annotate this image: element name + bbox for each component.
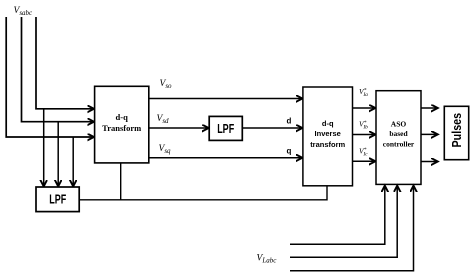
wire pulse a — [421, 107, 438, 109]
wire d output of LPF to inverse transform — [242, 127, 302, 129]
wire VIa* — [353, 107, 376, 109]
wire pulse b — [421, 133, 438, 135]
block ASO based controller — [376, 91, 421, 185]
svg-text:LPF: LPF — [217, 121, 234, 136]
svg-text:ASO: ASO — [391, 120, 407, 129]
svg-text:Pulses: Pulses — [449, 113, 464, 148]
wire LPF output to inverse transform bottom — [79, 186, 327, 200]
wire pulse c — [421, 161, 438, 163]
svg-text:controller: controller — [383, 140, 415, 149]
block d-q Transform — [95, 86, 149, 163]
svg-text:d-q: d-q — [116, 112, 129, 122]
block LPF (feedback filter) — [36, 187, 79, 212]
wire Vsd output to LPF — [149, 127, 209, 129]
svg-text:based: based — [389, 129, 408, 138]
wire tap b down to LPF — [57, 122, 59, 187]
wire phase c (right vertical to top d-q input) — [36, 17, 94, 109]
wire load phase b up to ASO — [290, 186, 397, 258]
svg-text:q: q — [287, 147, 292, 156]
wire d-q transform bottom tap — [120, 163, 122, 200]
wire tap c down to LPF — [72, 137, 74, 186]
wire phase a (left vertical to bottom d-q input) — [6, 17, 94, 137]
svg-text:d-q: d-q — [322, 119, 334, 128]
wire Vso output — [149, 98, 303, 100]
block d-q Inverse transform — [303, 87, 353, 186]
block LPF (d filter) — [209, 116, 242, 140]
svg-text:LPF: LPF — [49, 191, 66, 206]
wire tap a down to LPF — [43, 109, 45, 187]
block Pulses — [444, 106, 468, 159]
wire VIc* — [353, 160, 376, 162]
wire VIb* — [353, 134, 376, 136]
svg-text:Inverse: Inverse — [315, 129, 341, 138]
svg-text:transform: transform — [310, 140, 345, 149]
wire phase b (middle vertical to middle d-q input) — [22, 17, 95, 122]
svg-text:d: d — [287, 117, 292, 126]
svg-text:Transform: Transform — [102, 123, 141, 133]
wire Vsq output — [149, 157, 303, 159]
wire load phase a up to ASO — [290, 186, 385, 245]
wire load phase c up to ASO — [290, 186, 414, 271]
